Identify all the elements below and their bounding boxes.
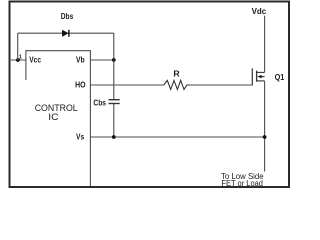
figure frame [10, 2, 290, 188]
svg-text:IC: IC [48, 112, 59, 122]
wire Cbs bottom to Vs rail [113, 104, 115, 137]
wire HO to resistor [90, 84, 164, 86]
node Vcc junction dot [16, 58, 20, 62]
wire resistor to gate [190, 84, 252, 86]
svg-text:Cbs: Cbs [93, 97, 106, 107]
control IC box (right edge) [89, 50, 91, 186]
label CONTROL IC [35, 103, 78, 122]
transistor Q1 (MOSFET) [252, 68, 264, 85]
wire Vcc from frame to IC [10, 59, 26, 61]
svg-text:1: 1 [19, 54, 22, 60]
control IC box (top edge) [26, 50, 91, 52]
svg-text:Vs: Vs [76, 132, 84, 142]
node Vs-Cbs junction dot [112, 135, 116, 139]
wire diode branch up from Vcc node [17, 33, 19, 60]
svg-text:FET or Load: FET or Load [221, 178, 263, 188]
svg-text:Vdc: Vdc [252, 6, 267, 16]
label To Low Side / FET or Load [221, 171, 264, 188]
svg-text:Vb: Vb [76, 55, 85, 65]
svg-text:Vcc: Vcc [29, 55, 41, 65]
source stub [257, 80, 265, 82]
wire Vb pin to node [90, 59, 113, 61]
diode Dbs [62, 30, 69, 37]
body arrow [261, 76, 265, 78]
svg-text:HO: HO [75, 80, 86, 90]
wire source down [264, 81, 266, 172]
svg-text:R: R [173, 68, 180, 78]
wire drain to Vdc [264, 16, 266, 73]
wire Vs rail [90, 136, 264, 138]
drain stub [257, 71, 265, 73]
capacitor Cbs [109, 100, 120, 104]
node Vb junction dot [112, 58, 116, 62]
control IC box (left edge, partial) [25, 50, 27, 80]
svg-text:Q1: Q1 [275, 72, 285, 82]
wire down to Vb node [113, 33, 115, 60]
wire Vb node down to Cbs [113, 60, 115, 99]
resistor R [164, 80, 191, 89]
channel bar [256, 71, 258, 82]
svg-text:Dbs: Dbs [61, 11, 74, 21]
wire top (bootstrap) horizontal [18, 32, 114, 34]
gate bar [251, 68, 253, 85]
node Vs-source junction dot [263, 135, 267, 139]
